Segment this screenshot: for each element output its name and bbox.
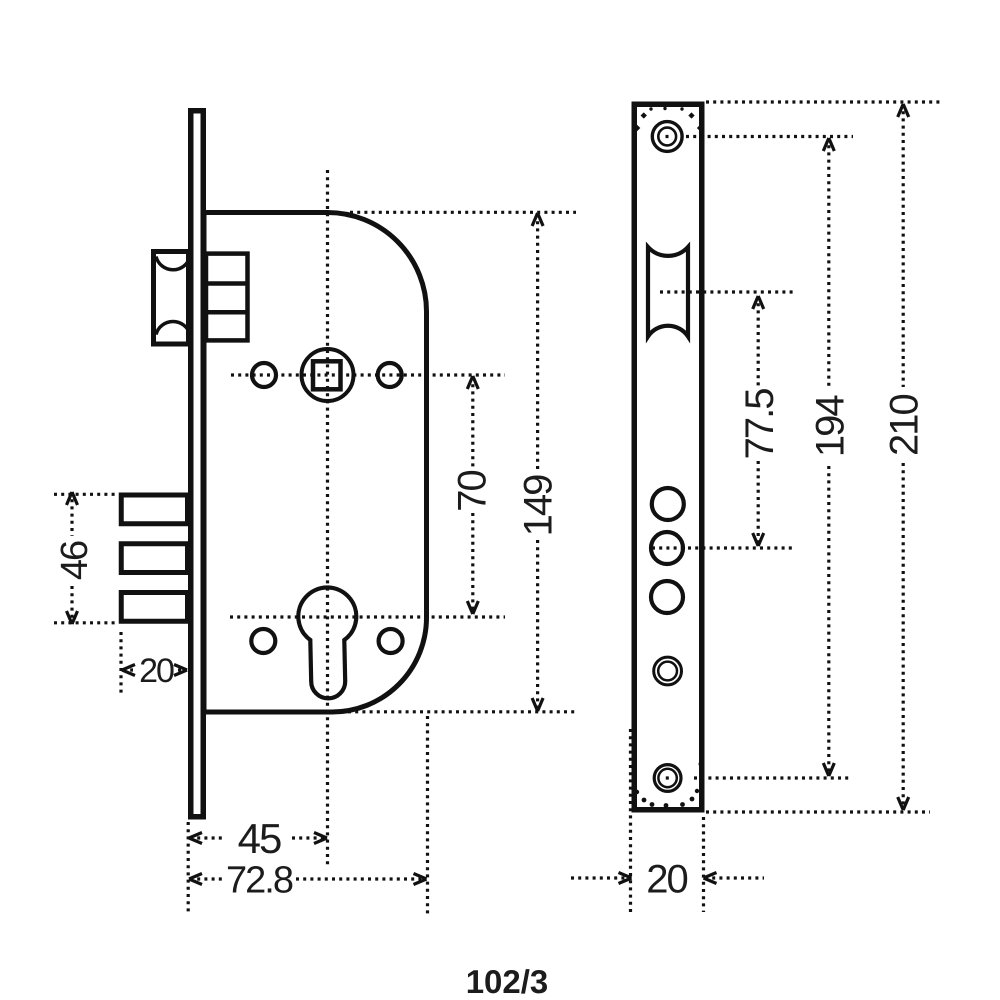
dimension 45 (backset) [188, 822, 327, 915]
deadbolt bar 2 [121, 544, 187, 573]
ext line bottom screw center [666, 776, 850, 779]
dimension 46 [54, 492, 117, 624]
ext line plate top [706, 100, 941, 103]
dimension 77.5 [753, 296, 764, 546]
stipple marks plate top [634, 107, 703, 131]
dimension 149 [312, 212, 578, 712]
svg-text:45: 45 [238, 815, 281, 862]
dimension 20 (bolt throw) [121, 632, 187, 695]
hub centerline [231, 373, 505, 376]
bottom screw hole [654, 765, 681, 792]
spindle square [313, 361, 341, 389]
dimension 210 (plate length) [898, 104, 909, 810]
svg-text:20: 20 [139, 652, 174, 690]
ext line middle hole center [652, 546, 793, 549]
ext line top screw center [666, 135, 854, 138]
ext line latch center [660, 290, 793, 293]
euro cylinder profile [298, 588, 356, 699]
cylinder fixing hole left [251, 629, 275, 653]
deadbolt hole 1 [652, 488, 684, 520]
latch bolt head [154, 252, 191, 345]
faceplate (side view, edge-on) [191, 111, 204, 817]
cylinder fixing hole right [379, 629, 403, 653]
dimension 70 [467, 376, 478, 614]
svg-text:72.8: 72.8 [226, 860, 293, 902]
deadbolt bar 1 [121, 495, 187, 524]
deadbolt hole 3 [651, 581, 683, 613]
top screw hole [652, 122, 682, 152]
forend plate (front view) [634, 104, 702, 810]
svg-text:20: 20 [646, 857, 687, 901]
dimension 194 [823, 138, 834, 776]
svg-text:77.5: 77.5 [738, 389, 782, 460]
svg-text:70: 70 [450, 471, 494, 512]
svg-text:149: 149 [516, 475, 560, 536]
latch bolt tail [206, 254, 248, 341]
stipple marks plate bottom [632, 762, 702, 808]
hub fixing hole right [378, 363, 402, 387]
svg-text:210: 210 [882, 394, 926, 455]
svg-text:46: 46 [54, 541, 96, 580]
lock body (side view) [204, 213, 427, 713]
dimension 20 (plate width) [571, 729, 764, 915]
countersunk hole [654, 657, 682, 685]
svg-text:102/3: 102/3 [466, 963, 549, 1000]
deadbolt hole 2 [651, 532, 683, 564]
hub fixing hole left [252, 363, 276, 387]
follower hub circle [302, 349, 354, 401]
deadbolt bar 3 [121, 593, 187, 622]
vertical centerline (45 axis) [326, 170, 329, 866]
cylinder centerline [230, 615, 505, 618]
svg-text:194: 194 [808, 395, 852, 457]
latch cutout (spool shape) [648, 247, 688, 337]
dimension 72.8 [189, 716, 428, 914]
ext line plate bottom [706, 810, 930, 813]
